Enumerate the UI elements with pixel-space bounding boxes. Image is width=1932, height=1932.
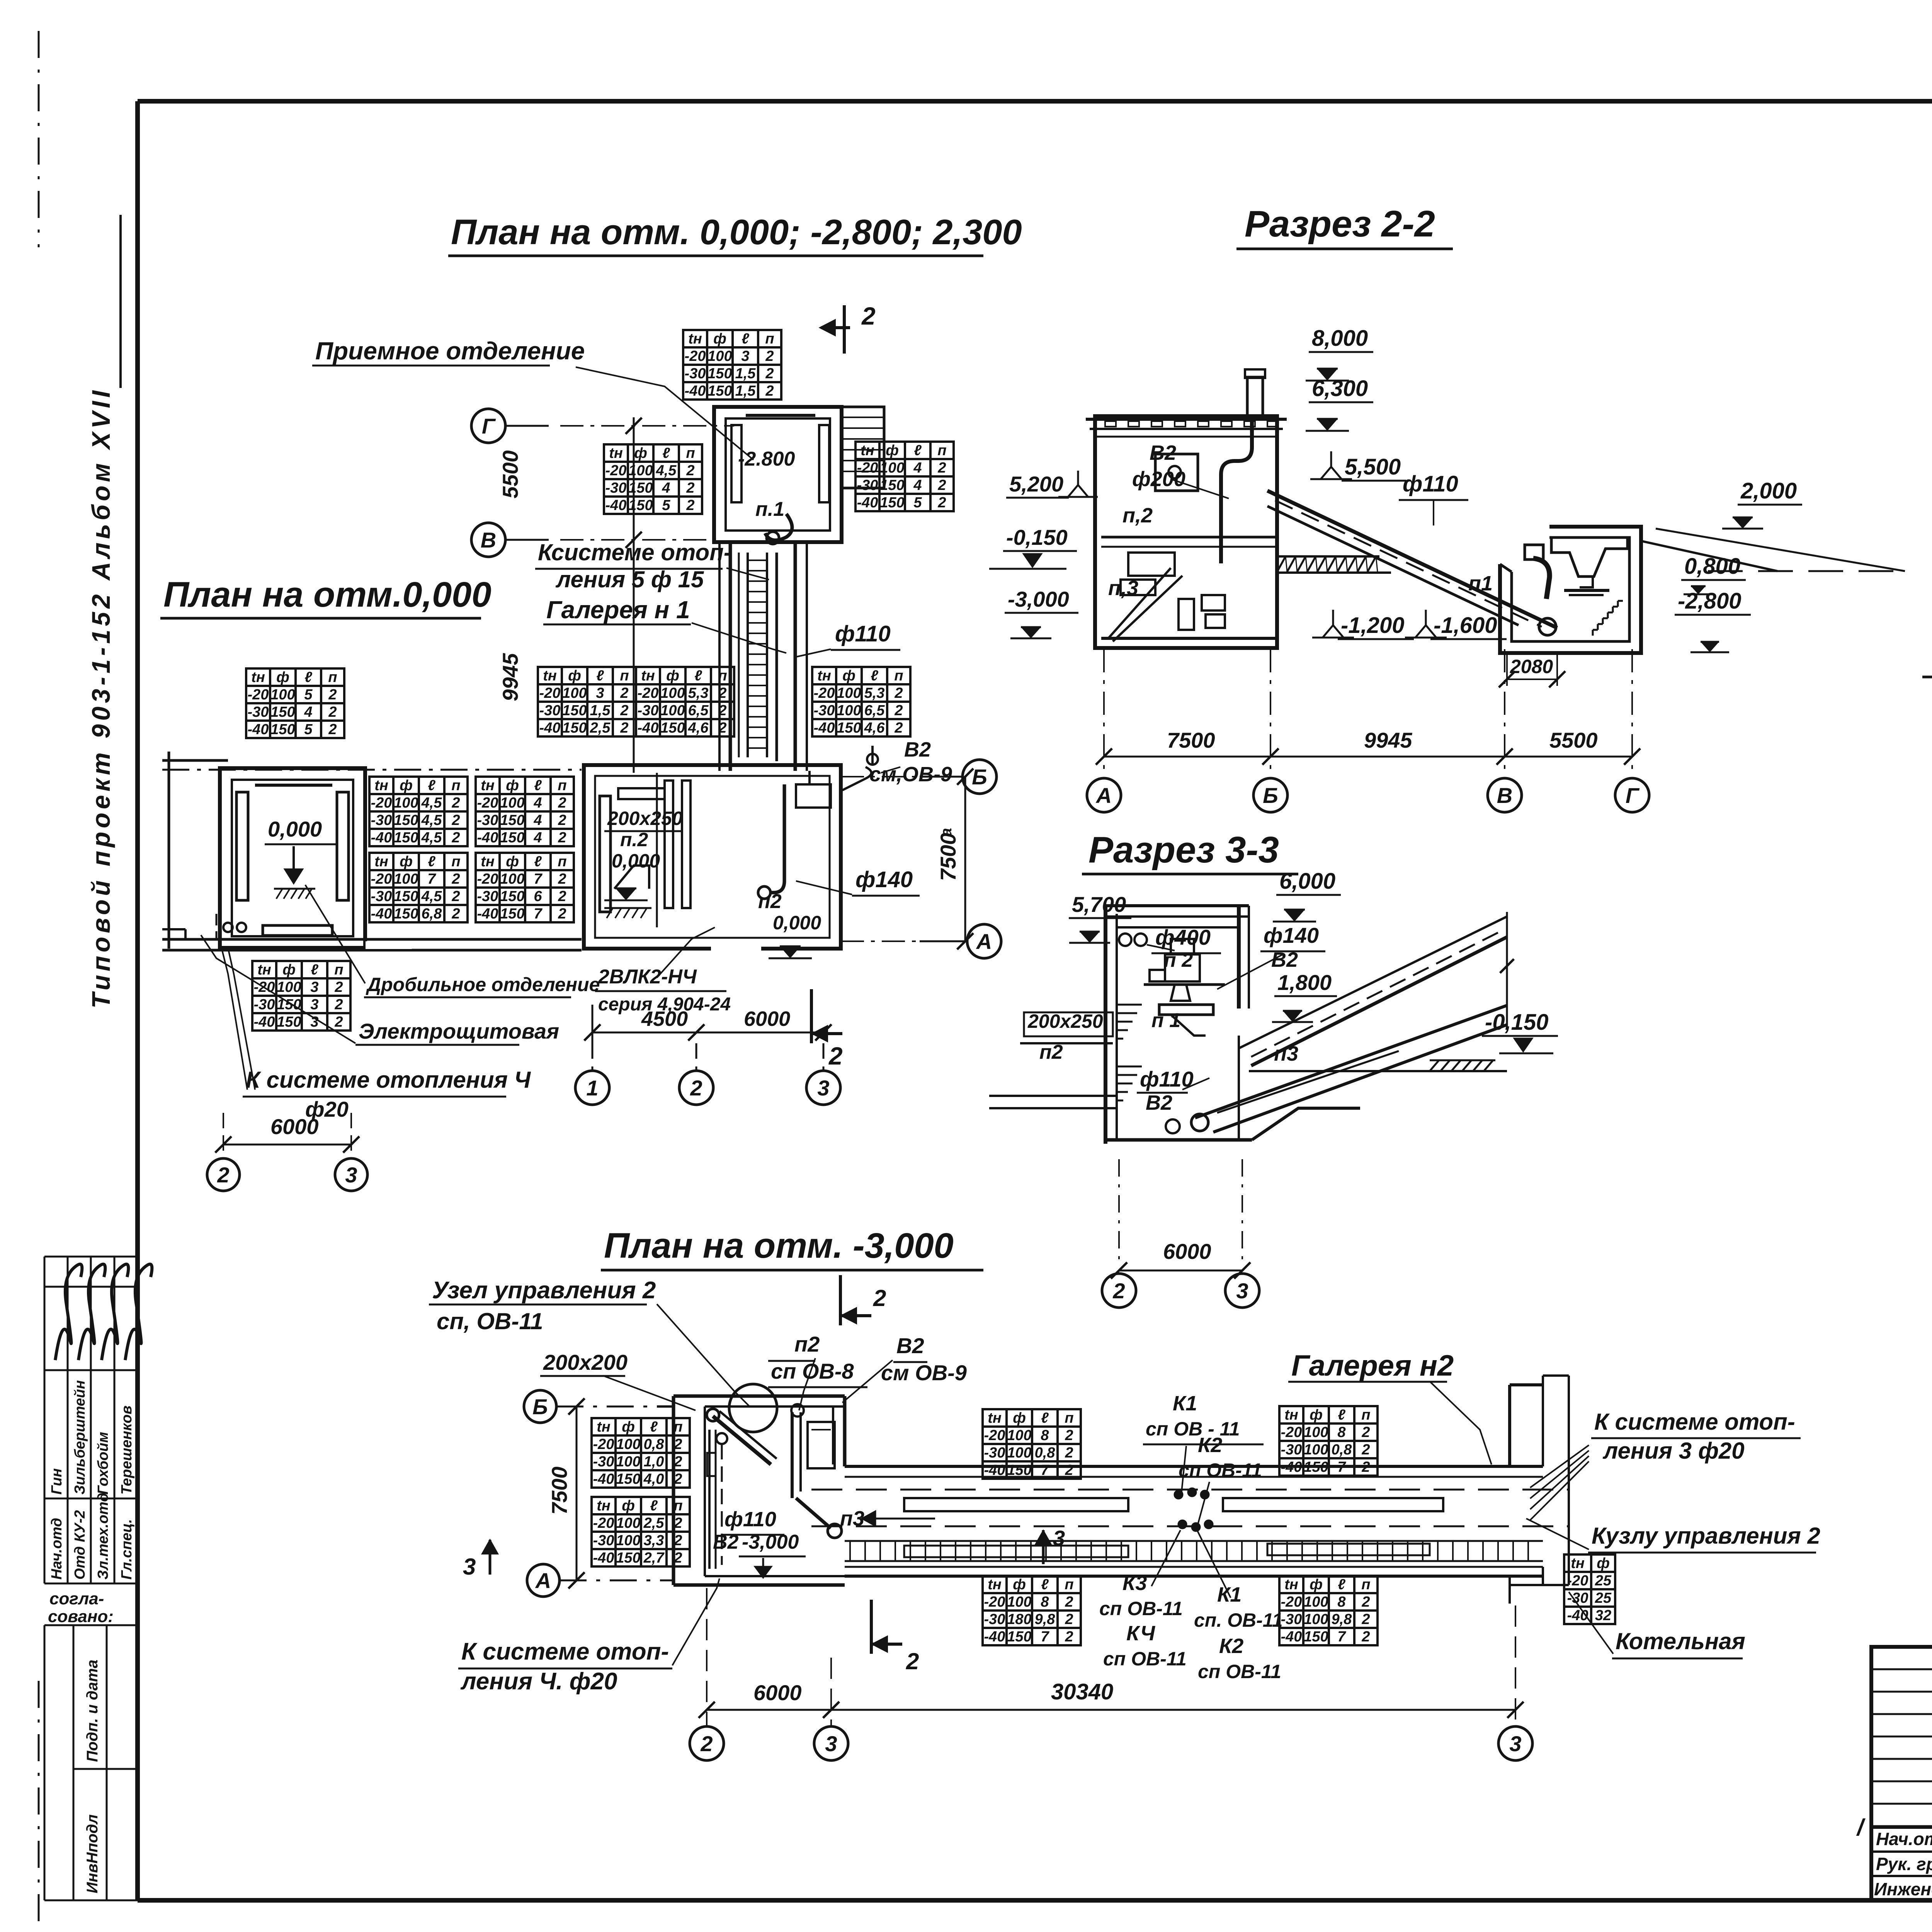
svg-text:150: 150 [628, 497, 653, 514]
svg-text:8: 8 [1337, 1594, 1346, 1610]
svg-text:-30: -30 [477, 888, 498, 905]
svg-text:К1: К1 [1173, 1392, 1197, 1415]
svg-text:-30: -30 [371, 888, 392, 905]
svg-text:2: 2 [894, 702, 903, 719]
svg-text:150: 150 [837, 720, 861, 736]
svg-text:ф: ф [1310, 1577, 1323, 1593]
svg-text:7: 7 [1337, 1629, 1346, 1645]
svg-text:2: 2 [690, 1076, 702, 1100]
svg-text:150: 150 [394, 888, 418, 905]
svg-text:tн: tн [641, 668, 655, 684]
svg-text:6,5: 6,5 [688, 702, 709, 719]
svg-text:ф: ф [1597, 1555, 1610, 1571]
svg-text:ℓ: ℓ [694, 668, 702, 684]
svg-text:п: п [937, 442, 946, 459]
svg-text:32: 32 [1595, 1607, 1611, 1624]
svg-text:2: 2 [558, 888, 566, 905]
svg-text:Галерея н2: Галерея н2 [1291, 1349, 1454, 1382]
svg-text:150: 150 [660, 720, 685, 736]
svg-text:6,300: 6,300 [1312, 376, 1368, 401]
svg-text:Гин: Гин [49, 1468, 65, 1495]
svg-text:-2.800: -2.800 [738, 448, 795, 470]
svg-text:В2: В2 [904, 738, 931, 761]
svg-text:0,8: 0,8 [1035, 1445, 1056, 1461]
svg-text:Гохбойм: Гохбойм [95, 1432, 111, 1495]
svg-text:п: п [718, 668, 727, 684]
svg-text:Терешенков: Терешенков [119, 1405, 135, 1495]
svg-text:tн: tн [688, 331, 702, 347]
svg-text:-40: -40 [477, 830, 498, 846]
svg-text:150: 150 [880, 495, 904, 511]
svg-text:ф: ф [842, 668, 855, 684]
svg-text:ИнвНподл: ИнвНподл [84, 1814, 101, 1893]
svg-text:0,800: 0,800 [1684, 554, 1740, 579]
svg-text:2,000: 2,000 [1740, 478, 1797, 503]
svg-text:4,5: 4,5 [421, 830, 442, 846]
svg-text:п: п [558, 777, 566, 794]
svg-text:8: 8 [1041, 1427, 1049, 1444]
svg-text:2: 2 [765, 383, 774, 399]
svg-text:0,8: 0,8 [644, 1436, 665, 1452]
svg-text:6,8: 6,8 [422, 906, 442, 922]
svg-text:-40: -40 [248, 721, 269, 738]
svg-text:п: п [765, 331, 774, 347]
svg-text:-30: -30 [477, 812, 498, 828]
svg-text:8: 8 [1337, 1424, 1346, 1440]
svg-text:1,0: 1,0 [644, 1454, 664, 1470]
svg-text:ф: ф [568, 668, 581, 684]
svg-text:ℓ: ℓ [534, 854, 542, 870]
svg-text:Б: Б [972, 765, 987, 789]
svg-text:ℓ: ℓ [914, 442, 922, 459]
svg-text:3: 3 [817, 1076, 829, 1100]
svg-text:tн: tн [374, 777, 388, 794]
svg-text:ℓ: ℓ [662, 445, 670, 461]
svg-text:А: А [1095, 783, 1112, 808]
svg-text:-20: -20 [1567, 1573, 1588, 1589]
svg-text:Узел управления 2: Узел управления 2 [432, 1277, 656, 1304]
svg-text:4: 4 [533, 830, 542, 846]
svg-text:100: 100 [660, 702, 685, 719]
svg-text:Б: Б [532, 1395, 548, 1419]
svg-text:0,000: 0,000 [268, 817, 322, 841]
svg-text:3: 3 [345, 1163, 357, 1187]
svg-text:3: 3 [1236, 1279, 1248, 1303]
svg-text:tн: tн [374, 854, 388, 870]
svg-text:2: 2 [558, 795, 566, 811]
svg-text:5: 5 [662, 497, 670, 514]
svg-text:2: 2 [673, 1532, 682, 1549]
svg-text:100: 100 [270, 687, 295, 703]
svg-text:150: 150 [707, 366, 732, 382]
svg-text:4: 4 [662, 480, 670, 496]
svg-text:tн: tн [988, 1577, 1002, 1593]
svg-text:ф400: ф400 [1155, 925, 1211, 949]
svg-text:6,5: 6,5 [864, 702, 885, 719]
svg-text:2: 2 [673, 1550, 682, 1566]
svg-text:-3,000: -3,000 [1008, 587, 1069, 611]
svg-text:2: 2 [1065, 1427, 1073, 1444]
svg-text:ℓ: ℓ [742, 331, 749, 347]
svg-text:-20: -20 [984, 1427, 1005, 1444]
svg-text:-20: -20 [477, 795, 498, 811]
svg-text:1,800: 1,800 [1277, 970, 1332, 995]
svg-text:-20: -20 [539, 685, 561, 701]
svg-text:п3: п3 [1274, 1042, 1298, 1065]
svg-text:Гл.спец.: Гл.спец. [119, 1519, 135, 1580]
svg-text:2: 2 [894, 685, 903, 701]
svg-text:2: 2 [451, 812, 460, 828]
svg-text:ф: ф [276, 669, 289, 685]
svg-text:2,5: 2,5 [643, 1515, 665, 1531]
svg-text:200х250: 200х250 [1027, 1010, 1103, 1032]
svg-text:2: 2 [828, 1042, 843, 1070]
svg-text:В2: В2 [713, 1531, 739, 1553]
svg-text:Г: Г [482, 414, 496, 438]
svg-text:-40: -40 [1281, 1629, 1302, 1645]
svg-text:2: 2 [1065, 1462, 1073, 1478]
svg-text:tн: tн [481, 854, 495, 870]
svg-text:ф200: ф200 [1132, 468, 1185, 491]
svg-text:2: 2 [937, 460, 946, 476]
svg-text:25: 25 [1595, 1573, 1612, 1589]
svg-text:100: 100 [1304, 1424, 1328, 1440]
svg-text:сп. ОВ-11: сп. ОВ-11 [1194, 1609, 1283, 1631]
svg-text:-40: -40 [984, 1462, 1005, 1478]
svg-text:7: 7 [427, 871, 436, 887]
svg-text:4,5: 4,5 [421, 795, 442, 811]
svg-text:150: 150 [628, 480, 653, 496]
svg-text:100: 100 [1304, 1611, 1328, 1628]
svg-text:100: 100 [500, 795, 524, 811]
svg-text:В: В [481, 528, 496, 552]
svg-text:2: 2 [700, 1731, 713, 1756]
svg-text:см ОВ-9: см ОВ-9 [881, 1361, 967, 1385]
svg-text:-30: -30 [254, 997, 275, 1013]
svg-text:А: А [976, 929, 992, 954]
svg-text:п: п [1065, 1410, 1073, 1426]
svg-text:7: 7 [1041, 1462, 1049, 1478]
svg-text:tн: tн [251, 669, 265, 685]
svg-text:2: 2 [718, 720, 726, 736]
svg-text:-40: -40 [1281, 1459, 1302, 1475]
svg-text:ф: ф [506, 854, 519, 870]
svg-text:150: 150 [616, 1550, 640, 1566]
svg-text:tн: tн [861, 442, 874, 459]
svg-text:2: 2 [1361, 1629, 1370, 1645]
svg-text:-40: -40 [593, 1550, 614, 1566]
svg-text:Отд КУ-2: Отд КУ-2 [72, 1510, 88, 1580]
svg-text:tн: tн [609, 445, 623, 461]
svg-text:п: п [558, 854, 566, 870]
svg-text:К2: К2 [1198, 1434, 1222, 1457]
svg-text:-0,150: -0,150 [1006, 525, 1068, 549]
svg-text:-20: -20 [477, 871, 498, 887]
svg-text:п: п [1065, 1577, 1073, 1593]
svg-text:В2: В2 [1271, 948, 1298, 971]
svg-text:Приемное отделение: Приемное отделение [315, 337, 585, 365]
svg-text:150: 150 [562, 702, 587, 719]
svg-text:2: 2 [334, 997, 343, 1013]
svg-text:Зл.тех.отд: Зл.тех.отд [95, 1493, 111, 1580]
svg-text:5,500: 5,500 [1345, 454, 1401, 480]
svg-text:7: 7 [534, 871, 543, 887]
svg-text:ℓ: ℓ [1338, 1407, 1345, 1423]
svg-text:-20: -20 [605, 463, 627, 479]
svg-text:6000: 6000 [1163, 1239, 1211, 1264]
svg-text:-40: -40 [371, 906, 392, 922]
svg-text:В: В [1497, 783, 1512, 808]
svg-text:5: 5 [913, 495, 922, 511]
svg-text:п.2: п.2 [620, 829, 648, 850]
svg-text:tн: tн [543, 668, 557, 684]
svg-text:150: 150 [394, 830, 418, 846]
svg-text:ф: ф [622, 1498, 635, 1514]
svg-text:ления 5 ф 15: ления 5 ф 15 [555, 566, 704, 592]
svg-text:150: 150 [616, 1471, 640, 1487]
svg-text:100: 100 [837, 685, 861, 701]
svg-text:5500: 5500 [1549, 728, 1598, 752]
svg-text:6000: 6000 [753, 1680, 802, 1705]
svg-text:100: 100 [394, 871, 418, 887]
svg-text:2: 2 [1361, 1459, 1370, 1475]
svg-text:100: 100 [1304, 1442, 1328, 1458]
svg-text:ф: ф [1013, 1410, 1026, 1426]
svg-text:ℓ: ℓ [311, 962, 318, 978]
svg-text:2: 2 [765, 366, 774, 382]
svg-text:п: п [334, 962, 343, 978]
svg-text:6000: 6000 [270, 1114, 319, 1139]
svg-text:tн: tн [481, 777, 495, 794]
svg-text:8: 8 [1041, 1594, 1049, 1610]
svg-text:3: 3 [741, 348, 749, 364]
svg-text:п: п [451, 777, 460, 794]
svg-text:tн: tн [597, 1419, 611, 1435]
svg-text:2: 2 [334, 1014, 343, 1030]
svg-text:100: 100 [1007, 1445, 1031, 1461]
svg-text:200х200: 200х200 [543, 1350, 628, 1374]
svg-text:150: 150 [1007, 1462, 1031, 1478]
svg-text:п,2: п,2 [1122, 504, 1153, 527]
svg-text:4,5: 4,5 [421, 812, 442, 828]
svg-text:ф: ф [666, 668, 679, 684]
svg-text:ℓ: ℓ [428, 777, 435, 794]
svg-text:см,ОВ-9: см,ОВ-9 [869, 763, 952, 786]
svg-text:2: 2 [673, 1471, 682, 1487]
svg-text:Г: Г [1626, 783, 1640, 808]
svg-text:2: 2 [673, 1436, 682, 1452]
svg-text:п2: п2 [758, 890, 782, 913]
svg-text:-2,800: -2,800 [1678, 588, 1741, 614]
svg-text:5: 5 [304, 721, 313, 738]
svg-text:2: 2 [558, 830, 566, 846]
svg-text:5,3: 5,3 [864, 685, 885, 701]
svg-text:1: 1 [586, 1076, 598, 1100]
svg-text:2,7: 2,7 [643, 1550, 665, 1566]
svg-text:ф: ф [400, 854, 413, 870]
svg-text:сп ОВ-8: сп ОВ-8 [771, 1359, 854, 1383]
svg-text:п: п [1361, 1407, 1370, 1423]
svg-text:3: 3 [1509, 1731, 1521, 1756]
svg-text:п: п [673, 1419, 682, 1435]
svg-text:сп ОВ-11: сп ОВ-11 [1198, 1661, 1281, 1682]
svg-text:100: 100 [1007, 1427, 1031, 1444]
svg-text:-40: -40 [254, 1014, 275, 1030]
svg-text:п: п [620, 668, 629, 684]
svg-text:ф140: ф140 [855, 867, 913, 892]
svg-text:План на отм. -3,000: План на отм. -3,000 [604, 1226, 954, 1265]
svg-text:-1,600: -1,600 [1434, 613, 1497, 638]
svg-text:-40: -40 [605, 497, 627, 514]
svg-text:-20: -20 [1281, 1424, 1302, 1440]
svg-text:Дробильное отделение: Дробильное отделение [366, 974, 600, 995]
svg-text:Типовой проект 903-1-152: Типовой проект 903-1-152 Альбом XVII [87, 387, 115, 1009]
svg-text:tн: tн [1284, 1407, 1298, 1423]
svg-text:-1,200: -1,200 [1341, 613, 1404, 638]
svg-text:Разрез 3-3: Разрез 3-3 [1088, 829, 1279, 871]
svg-text:-40: -40 [857, 495, 878, 511]
svg-text:3: 3 [596, 685, 604, 701]
svg-text:1,5: 1,5 [590, 702, 611, 719]
svg-text:100: 100 [277, 979, 301, 995]
svg-text:сп ОВ-11: сп ОВ-11 [1099, 1598, 1183, 1619]
svg-text:100: 100 [616, 1436, 640, 1452]
svg-text:25: 25 [1595, 1590, 1612, 1606]
svg-text:3: 3 [310, 997, 318, 1013]
svg-text:2: 2 [937, 477, 946, 493]
svg-text:150: 150 [1007, 1629, 1031, 1645]
svg-text:2: 2 [451, 795, 460, 811]
svg-text:ℓ: ℓ [1041, 1410, 1049, 1426]
svg-text:Кузлу управления 2: Кузлу управления 2 [1592, 1523, 1820, 1549]
svg-text:tн: tн [597, 1498, 611, 1514]
svg-text:КЧ: КЧ [1126, 1622, 1156, 1645]
svg-text:ф110: ф110 [835, 621, 891, 646]
svg-text:100: 100 [628, 463, 653, 479]
svg-text:5,700: 5,700 [1072, 892, 1126, 917]
svg-text:-30: -30 [593, 1532, 614, 1549]
svg-text:7500: 7500 [547, 1466, 571, 1515]
svg-text:2: 2 [558, 871, 566, 887]
svg-text:2: 2 [558, 906, 566, 922]
svg-text:100: 100 [880, 460, 904, 476]
svg-text:Рук. гр: Рук. гр [1876, 1854, 1932, 1874]
svg-text:2: 2 [1065, 1445, 1073, 1461]
svg-text:-40: -40 [638, 720, 659, 736]
svg-text:Б: Б [1263, 783, 1278, 808]
svg-text:4500: 4500 [641, 1007, 688, 1031]
svg-text:150: 150 [500, 888, 524, 905]
svg-text:2: 2 [451, 871, 460, 887]
svg-text:В2: В2 [1150, 441, 1176, 464]
svg-text:Зильберштейн: Зильберштейн [72, 1380, 88, 1495]
svg-text:ℓ: ℓ [1338, 1577, 1345, 1593]
svg-text:-30: -30 [984, 1445, 1005, 1461]
svg-text:ф140: ф140 [1264, 923, 1319, 947]
svg-text:150: 150 [500, 830, 524, 846]
svg-text:Ксистеме отоп-: Ксистеме отоп- [538, 539, 731, 565]
svg-text:п: п [686, 445, 695, 461]
svg-text:-30: -30 [1281, 1442, 1302, 1458]
svg-text:4: 4 [913, 477, 922, 493]
svg-text:2: 2 [328, 687, 337, 703]
svg-text:tн: tн [1571, 1555, 1585, 1571]
svg-text:2: 2 [334, 979, 343, 995]
svg-text:5: 5 [304, 687, 313, 703]
svg-text:2080: 2080 [1510, 656, 1553, 677]
svg-text:100: 100 [1304, 1594, 1328, 1610]
svg-text:2: 2 [673, 1454, 682, 1470]
svg-text:-20: -20 [814, 685, 835, 701]
svg-text:tн: tн [817, 668, 831, 684]
svg-text:/: / [1856, 1815, 1866, 1840]
svg-text:-30: -30 [638, 702, 659, 719]
svg-text:п 2: п 2 [1164, 949, 1193, 971]
svg-text:-20: -20 [685, 348, 706, 364]
svg-text:ℓ: ℓ [304, 669, 312, 685]
svg-text:7: 7 [534, 906, 543, 922]
svg-text:150: 150 [277, 1014, 301, 1030]
svg-text:2: 2 [1112, 1279, 1125, 1303]
svg-text:ℓ: ℓ [871, 668, 878, 684]
svg-text:200х250: 200х250 [607, 808, 683, 829]
svg-text:2: 2 [217, 1163, 229, 1187]
svg-text:ф: ф [634, 445, 647, 461]
svg-text:9,8: 9,8 [1332, 1611, 1352, 1628]
svg-text:ℓ: ℓ [650, 1498, 658, 1514]
svg-text:ления 3 ф20: ления 3 ф20 [1602, 1438, 1745, 1464]
svg-text:2: 2 [873, 1285, 886, 1311]
svg-text:150: 150 [500, 812, 524, 828]
svg-text:-30: -30 [984, 1611, 1005, 1628]
svg-text:-30: -30 [685, 366, 706, 382]
svg-text:2ВЛК2-НЧ: 2ВЛК2-НЧ [598, 966, 697, 988]
svg-text:4: 4 [913, 460, 922, 476]
svg-text:-30: -30 [539, 702, 561, 719]
svg-text:150: 150 [270, 721, 295, 738]
svg-text:-30: -30 [248, 704, 269, 720]
svg-text:п: п [328, 669, 337, 685]
svg-text:3: 3 [825, 1731, 837, 1756]
svg-text:3: 3 [463, 1554, 476, 1580]
svg-text:2: 2 [906, 1648, 919, 1674]
svg-text:2: 2 [718, 685, 726, 701]
svg-text:6,000: 6,000 [1279, 869, 1335, 894]
svg-text:3,3: 3,3 [644, 1532, 664, 1549]
svg-text:0,000: 0,000 [773, 912, 821, 934]
svg-text:ления Ч. ф20: ления Ч. ф20 [460, 1668, 617, 1695]
svg-text:сп ОВ - 11: сп ОВ - 11 [1146, 1418, 1240, 1440]
svg-text:План на отм. 0,000; -2,800; 2: План на отм. 0,000; -2,800; 2,300 [451, 213, 1022, 252]
svg-text:Подп. и дата: Подп. и дата [84, 1660, 101, 1762]
svg-text:150: 150 [562, 720, 587, 736]
svg-text:2: 2 [1065, 1594, 1073, 1610]
svg-text:4: 4 [304, 704, 312, 720]
svg-text:150: 150 [270, 704, 295, 720]
svg-text:п1: п1 [1468, 572, 1493, 595]
svg-text:2: 2 [718, 702, 726, 719]
svg-text:2: 2 [937, 495, 946, 511]
svg-text:ф: ф [1310, 1407, 1323, 1423]
svg-text:2: 2 [328, 721, 337, 738]
svg-text:В2: В2 [896, 1333, 924, 1358]
svg-text:2: 2 [620, 702, 628, 719]
svg-text:100: 100 [837, 702, 861, 719]
svg-text:п 1: п 1 [1151, 1009, 1180, 1032]
svg-text:-40: -40 [593, 1471, 614, 1487]
svg-text:К системе отоп-: К системе отоп- [1594, 1409, 1795, 1435]
svg-text:2: 2 [894, 720, 903, 736]
